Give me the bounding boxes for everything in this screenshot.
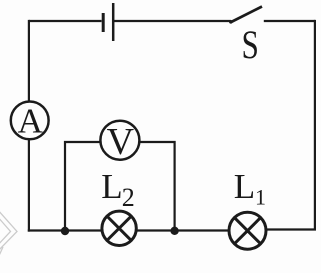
svg-text:S: S: [242, 22, 259, 67]
svg-text:L: L: [234, 167, 255, 206]
svg-text:V: V: [107, 121, 135, 163]
svg-text:2: 2: [122, 183, 135, 212]
svg-text:L: L: [101, 167, 122, 206]
svg-text:1: 1: [255, 185, 266, 210]
svg-text:A: A: [18, 102, 44, 141]
